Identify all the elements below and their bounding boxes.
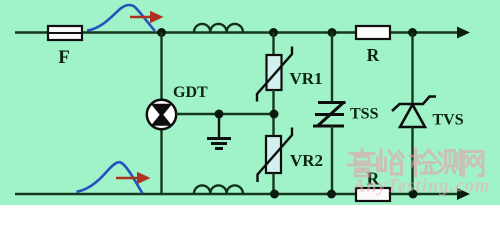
wire: TSS lower lead — [331, 126, 333, 194]
wire: top line L1 — [15, 31, 458, 33]
surge waveform top (blue impulse) — [87, 5, 155, 31]
node: TVS bottom junction — [409, 190, 418, 199]
varistor VR1 — [257, 47, 292, 102]
surge direction arrow top (red) — [130, 11, 164, 23]
fuse F body — [48, 26, 82, 40]
resistor R bottom — [356, 188, 390, 201]
svg-text:TSS: TSS — [350, 106, 379, 123]
wire: VR1 to VR2 — [272, 90, 274, 137]
node: top junction to GDT — [157, 28, 166, 37]
wire: TSS upper lead — [331, 33, 333, 103]
char 网 — [464, 152, 484, 176]
svg-text:R: R — [367, 45, 380, 65]
surge waveform bottom (blue impulse) — [77, 162, 143, 193]
svg-text:VR1: VR1 — [290, 69, 323, 88]
svg-text:F: F — [58, 47, 70, 68]
char 嘉 — [348, 149, 375, 176]
wire: TVS lower lead — [411, 127, 413, 194]
surge direction arrow bottom (red) — [116, 172, 151, 184]
gas discharge tube GDT — [147, 100, 176, 129]
svg-text:VR2: VR2 — [290, 151, 323, 170]
wire: VR2 bottom lead — [272, 173, 274, 194]
node: TSS top junction — [328, 28, 337, 37]
node: VR1 top junction — [269, 28, 278, 37]
node: ground tap — [215, 110, 224, 119]
svg-text:GDT: GDT — [173, 84, 208, 101]
thyristor surge suppressor TSS — [313, 103, 346, 127]
varistor VR2 — [258, 128, 293, 183]
resistor R top — [356, 26, 390, 39]
node: VR2 bottom junction — [270, 190, 279, 199]
wire: GDT to VR junction (horizontal) — [176, 113, 274, 115]
ground — [207, 114, 231, 149]
TVS diode D1 — [392, 97, 436, 128]
svg-text:AnyTesting.com: AnyTesting.com — [352, 177, 491, 197]
node: TVS top junction — [408, 28, 417, 37]
char 检 — [411, 149, 436, 176]
wire: top line output arrowhead — [457, 27, 470, 39]
wire: bottom line output arrowhead — [457, 188, 470, 200]
wire: GDT column upper — [160, 33, 162, 101]
char 峪 — [378, 150, 404, 174]
wire: bottom line L2 — [15, 193, 458, 195]
wire: TVS upper lead — [411, 33, 413, 105]
wire: GDT column lower — [160, 128, 162, 194]
watermark: 嘉峪检测网 (drawn strokes) — [348, 149, 483, 176]
node: VR middle junction — [270, 110, 279, 119]
wire: VR1 top lead — [272, 33, 274, 57]
char 测 — [438, 150, 461, 175]
inductor L top — [194, 24, 243, 33]
svg-text:TVS: TVS — [433, 112, 464, 129]
node: TSS bottom junction — [327, 190, 336, 199]
inductor L bottom — [194, 185, 243, 194]
